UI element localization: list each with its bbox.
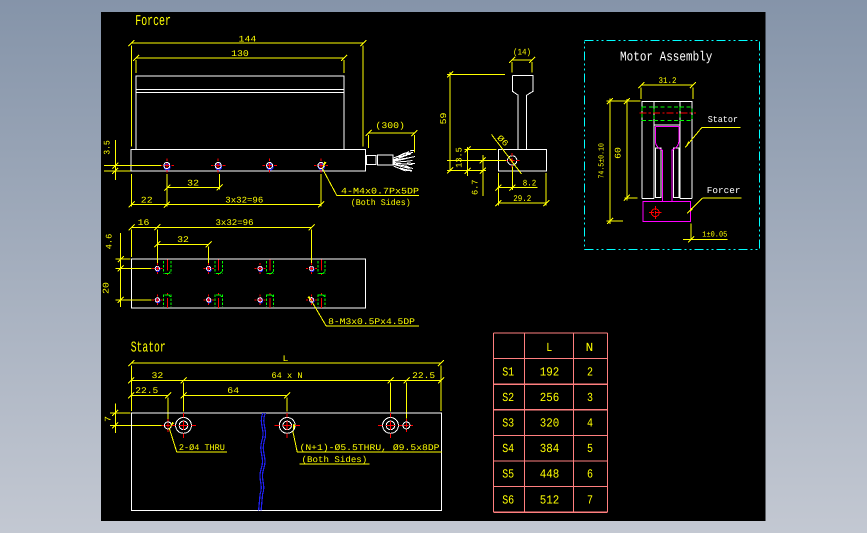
svg-text:6: 6 bbox=[587, 468, 593, 482]
svg-text:3x32=96: 3x32=96 bbox=[216, 218, 254, 228]
svg-text:192: 192 bbox=[540, 365, 560, 379]
svg-text:4.6: 4.6 bbox=[105, 234, 115, 250]
stator small hole 2 bbox=[403, 422, 410, 429]
svg-text:L: L bbox=[283, 354, 289, 364]
svg-text:29.2: 29.2 bbox=[513, 194, 531, 204]
svg-text:22.5: 22.5 bbox=[412, 371, 435, 381]
stator cross-section outline bbox=[642, 101, 692, 198]
side view T profile bbox=[513, 75, 533, 149]
svg-text:6.7: 6.7 bbox=[470, 180, 480, 196]
svg-text:74.5±0.10: 74.5±0.10 bbox=[598, 143, 607, 179]
dim 6.7 bbox=[482, 155, 484, 196]
svg-text:13.5: 13.5 bbox=[455, 147, 465, 168]
stator coil left bbox=[655, 148, 661, 197]
dim 31.2 bbox=[641, 84, 693, 86]
forcer body inner lines bbox=[136, 88, 344, 90]
dim 144 bbox=[132, 42, 364, 44]
dim 22 bbox=[132, 204, 167, 206]
side view hole bbox=[508, 156, 517, 165]
stator cross-section inner walls bbox=[654, 101, 680, 198]
svg-text:22: 22 bbox=[141, 195, 153, 205]
svg-text:5: 5 bbox=[587, 442, 593, 456]
svg-text:7: 7 bbox=[103, 416, 113, 422]
dim 130 bbox=[136, 57, 344, 59]
svg-text:L: L bbox=[546, 341, 552, 355]
svg-text:320: 320 bbox=[540, 417, 560, 431]
bottom view dim 32 bbox=[157, 243, 208, 245]
svg-text:Forcer: Forcer bbox=[707, 186, 741, 196]
table grid bbox=[493, 332, 607, 334]
leader (N+1) counterbore bbox=[293, 424, 296, 431]
cable connector bbox=[367, 155, 376, 164]
svg-text:3: 3 bbox=[587, 391, 593, 405]
leader 2-dia4 THRU bbox=[169, 422, 174, 428]
svg-text:512: 512 bbox=[540, 493, 560, 507]
dim 60 bbox=[626, 99, 628, 200]
cable strands bbox=[394, 152, 413, 172]
stator dim row 22.5 / 64 bbox=[131, 394, 168, 396]
forcer cross-section plate bbox=[643, 201, 690, 221]
svg-text:22.5: 22.5 bbox=[135, 386, 158, 396]
bottom view dim 16 bbox=[132, 226, 158, 228]
bottom view dim 3x32=96 bbox=[157, 226, 311, 228]
stator big hole 3 bbox=[383, 418, 399, 434]
dim 1 air gap bbox=[690, 224, 692, 240]
svg-text:N: N bbox=[586, 341, 594, 355]
svg-text:(300): (300) bbox=[375, 121, 405, 131]
green magnet dashes right bbox=[680, 107, 692, 120]
svg-text:(N+1)-Ø5.5THRU, Ø9.5x8DP: (N+1)-Ø5.5THRU, Ø9.5x8DP bbox=[300, 443, 440, 453]
dim 59 bbox=[449, 72, 451, 172]
leader 8-M3x0.5Px4.5DP bbox=[308, 296, 313, 302]
forcer base plate bbox=[131, 149, 365, 171]
svg-text:Stator: Stator bbox=[708, 115, 738, 125]
leader 4-M4x0.7Px5DP bbox=[322, 162, 326, 169]
svg-text:60: 60 bbox=[614, 147, 624, 159]
svg-text:32: 32 bbox=[152, 371, 164, 381]
side view base block bbox=[498, 149, 546, 170]
svg-text:S2: S2 bbox=[502, 391, 514, 405]
svg-text:31.2: 31.2 bbox=[659, 76, 677, 86]
svg-text:2: 2 bbox=[587, 365, 593, 379]
stator break line bbox=[259, 413, 263, 511]
stator outline bbox=[131, 413, 441, 511]
svg-text:256: 256 bbox=[540, 391, 560, 405]
dim 8.2 bbox=[497, 187, 537, 189]
svg-text:Stator: Stator bbox=[131, 339, 166, 357]
svg-text:20: 20 bbox=[102, 282, 112, 294]
black drawing canvas bbox=[101, 12, 766, 521]
svg-text:144: 144 bbox=[239, 34, 257, 44]
svg-text:2-Ø4 THRU: 2-Ø4 THRU bbox=[179, 443, 225, 453]
svg-text:Motor Assembly: Motor Assembly bbox=[620, 49, 712, 65]
svg-text:448: 448 bbox=[540, 468, 560, 482]
label Stator leader bbox=[685, 141, 690, 147]
svg-text:(Both Sides): (Both Sides) bbox=[302, 455, 368, 465]
svg-text:130: 130 bbox=[231, 49, 249, 59]
forcer body outline bbox=[136, 76, 344, 149]
stator dim 7 bbox=[114, 404, 116, 433]
svg-text:32: 32 bbox=[187, 179, 199, 189]
bottom view outline bbox=[132, 259, 366, 308]
red centerline bbox=[640, 112, 697, 114]
svg-text:1±0.05: 1±0.05 bbox=[702, 231, 727, 240]
svg-text:7: 7 bbox=[587, 493, 593, 507]
dim 32 forcer bbox=[167, 187, 219, 189]
forcer cross-section T bbox=[655, 127, 679, 202]
green magnet dashes middle bbox=[654, 107, 680, 120]
stator big hole 2 bbox=[279, 418, 295, 434]
svg-text:S4: S4 bbox=[502, 442, 514, 456]
forcer plate holes bbox=[164, 164, 170, 170]
stator dim L bbox=[131, 362, 441, 364]
svg-text:16: 16 bbox=[138, 218, 150, 228]
leader dia6 bbox=[492, 135, 522, 175]
svg-text:(14): (14) bbox=[513, 47, 531, 57]
svg-text:S6: S6 bbox=[502, 493, 514, 507]
stator coil right bbox=[674, 148, 679, 197]
cable strand dashes bbox=[405, 150, 415, 168]
svg-text:3.5: 3.5 bbox=[103, 140, 113, 155]
forcer plate target bbox=[651, 209, 659, 217]
dim (300) bbox=[369, 132, 415, 134]
svg-text:8-M3x0.5Px4.5DP: 8-M3x0.5Px4.5DP bbox=[328, 317, 415, 327]
dim 3.5 bbox=[114, 140, 116, 180]
bottom view holes and threaded slots bbox=[156, 268, 160, 272]
dim 29.2 bbox=[498, 202, 546, 204]
dim 74.5 bbox=[609, 99, 611, 225]
svg-text:(Both Sides): (Both Sides) bbox=[351, 198, 411, 208]
svg-text:64 x N: 64 x N bbox=[272, 371, 303, 381]
stator small hole 1 bbox=[164, 422, 171, 429]
stator dim row 32 / 64xN / 22.5 bbox=[131, 379, 441, 381]
svg-text:S1: S1 bbox=[502, 365, 514, 379]
motor assembly dashed border bbox=[585, 40, 760, 249]
green magnet dashes left bbox=[642, 107, 654, 120]
svg-text:384: 384 bbox=[540, 442, 560, 456]
svg-text:S5: S5 bbox=[502, 468, 514, 482]
svg-text:4: 4 bbox=[587, 417, 593, 431]
label Forcer leader bbox=[687, 208, 693, 214]
svg-text:59: 59 bbox=[439, 113, 449, 125]
svg-text:32: 32 bbox=[177, 235, 189, 245]
dim 4.6 and 20 shared line bbox=[120, 233, 122, 307]
dim 3x32=96 bbox=[167, 204, 321, 206]
svg-text:4-M4x0.7Px5DP: 4-M4x0.7Px5DP bbox=[341, 186, 419, 196]
svg-text:64: 64 bbox=[227, 386, 239, 396]
svg-text:Forcer: Forcer bbox=[135, 12, 171, 30]
svg-text:S3: S3 bbox=[502, 417, 514, 431]
dim (14) bbox=[512, 59, 532, 61]
stator big hole 1 bbox=[176, 418, 192, 434]
svg-text:3x32=96: 3x32=96 bbox=[225, 195, 263, 205]
dim 13.5 bbox=[467, 147, 469, 176]
svg-text:8.2: 8.2 bbox=[523, 178, 537, 188]
